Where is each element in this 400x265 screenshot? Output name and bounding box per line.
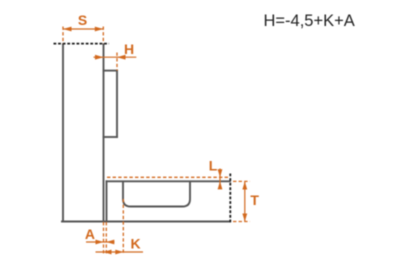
svg-text:T: T [250, 192, 259, 208]
svg-text:A: A [85, 226, 95, 242]
svg-text:K: K [131, 235, 141, 251]
svg-text:L: L [209, 158, 218, 174]
svg-text:S: S [78, 12, 87, 28]
svg-text:H=-4,5+K+A: H=-4,5+K+A [264, 12, 355, 30]
svg-text:H: H [124, 41, 134, 57]
